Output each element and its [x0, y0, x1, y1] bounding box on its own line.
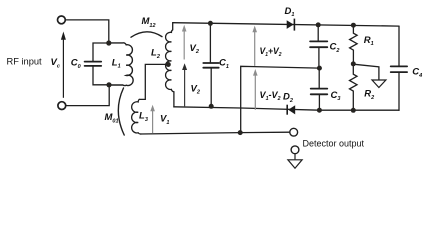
- mutual coupling arc M01: [118, 88, 124, 135]
- capacitor C1 stubs: [209, 23, 212, 106]
- arrow V1: [152, 110, 154, 133]
- inductor L1: [109, 43, 133, 86]
- ground symbol: [372, 80, 386, 88]
- detector output ground terminal: [291, 146, 299, 154]
- wire centre tap to L3: [139, 64, 168, 99]
- inductor L2 with centre tap: [166, 23, 174, 107]
- diode D2: [288, 105, 295, 114]
- bottom rail: [174, 107, 399, 110]
- arrow V2 upper: [183, 31, 185, 60]
- junction node tank bottom: [106, 82, 111, 87]
- svg-text:V1-V2: V1-V2: [260, 90, 281, 102]
- capacitor C3 branch: [318, 68, 320, 110]
- junction node R1 top: [351, 23, 356, 28]
- RF input terminal bottom: [58, 102, 66, 110]
- junction node C2 top: [316, 22, 321, 27]
- junction node C3 bottom: [317, 108, 322, 113]
- capacitor C2 plates: [310, 41, 327, 47]
- junction node R2 bottom: [351, 108, 356, 113]
- RF input terminal top: [58, 16, 66, 24]
- junction node C1 top: [208, 21, 213, 26]
- wire rail2 to detector output: [141, 132, 290, 134]
- svg-text:V1+V2: V1+V2: [260, 46, 282, 58]
- resistor R1: [350, 25, 358, 64]
- capacitor C2 branch: [317, 25, 320, 68]
- junction node tank top: [106, 40, 111, 45]
- junction node C2-C3: [317, 66, 322, 71]
- junction node C1 bottom: [209, 104, 214, 109]
- wire top-left from RF input terminal: [65, 20, 109, 42]
- capacitor C3 plates: [311, 89, 328, 95]
- junction node output line: [238, 130, 243, 135]
- arrow V2 lower: [184, 69, 186, 107]
- top rail: [173, 23, 399, 26]
- wire C2-C3 midpoint to output vertical: [241, 66, 320, 132]
- wire tank bottom: [93, 66, 109, 85]
- inductor L3: [132, 99, 141, 134]
- wire tank top: [93, 43, 109, 61]
- svg-text:Detector output: Detector output: [303, 139, 365, 149]
- arrow Vc: [62, 39, 64, 98]
- wire to ground: [353, 64, 379, 79]
- capacitor C4 plates: [391, 66, 407, 72]
- svg-text:RF input: RF input: [7, 56, 43, 66]
- arrow V1-V2: [254, 75, 256, 110]
- capacitor C1 plates: [203, 63, 218, 68]
- diode D1: [287, 20, 294, 29]
- capacitor C4 branch: [398, 26, 400, 110]
- wire bottom-left from RF input terminal: [66, 86, 110, 106]
- detector output terminal: [290, 128, 298, 136]
- junction node L2 centre tap: [166, 62, 171, 67]
- junction node R1-R2: [351, 61, 356, 66]
- mutual coupling arc M12: [131, 32, 162, 37]
- arrow V1+V2: [254, 31, 256, 66]
- ground symbol below output: [294, 154, 296, 160]
- capacitor C0: [85, 62, 102, 66]
- resistor R2: [350, 64, 358, 110]
